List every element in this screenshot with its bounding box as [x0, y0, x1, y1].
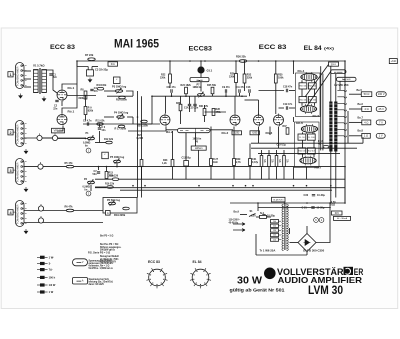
potentiometer P1 0,5M lin	[88, 137, 95, 140]
wire Ro.1b cathode net	[57, 126, 63, 131]
ground below Bu.2	[24, 149, 28, 154]
wire diagonal to marker box	[305, 65, 329, 98]
svg-text:Höhen: Höhen	[195, 146, 203, 150]
wire grid return line	[166, 129, 233, 131]
wire ground bus lower	[95, 187, 345, 189]
resistor R16 220k	[119, 96, 126, 99]
capacitor C31b 0,47u	[249, 159, 252, 166]
mains transformer Tr1 core	[284, 203, 286, 250]
tube Ro.2 triode a	[160, 115, 170, 125]
switch S1	[249, 214, 256, 217]
potentiometer P6 box frame	[103, 198, 137, 214]
wire R26 drop	[235, 61, 237, 74]
svg-text:Bei P3 = 5 Ω: Bei P3 = 5 Ω	[100, 236, 114, 238]
wire EL84 block frame	[296, 73, 321, 117]
capacitor C16 3,3n	[249, 89, 250, 92]
capacitor C11 47n	[239, 89, 240, 92]
mains transformer Tr1 primary	[282, 204, 284, 250]
supply label box right end of bus	[389, 59, 397, 64]
svg-text:Bu.9: Bu.9	[234, 211, 240, 214]
svg-text:6293: 6293	[234, 133, 240, 135]
wire vertical x293.5	[293, 61, 295, 74]
wire Bu.2 row	[24, 137, 86, 139]
terminal oval 7V	[376, 133, 385, 138]
svg-text:47n: 47n	[172, 86, 177, 89]
wire Ro.2a cathode	[165, 127, 167, 132]
svg-text:P6 5kΩ log: P6 5kΩ log	[107, 199, 120, 202]
ground below Bu.3	[24, 187, 28, 192]
svg-text:Ü2 WK 253: Ü2 WK 253	[334, 82, 349, 87]
box marker 6293	[232, 131, 242, 135]
terminal oval 100V	[376, 92, 386, 97]
capacitor C5 4,7n	[87, 122, 88, 125]
wire Ro.1a anode up	[62, 84, 77, 89]
note block mid 1	[100, 244, 122, 251]
wire Ro.1a anode row	[67, 95, 96, 97]
svg-text:Rö.7: Rö.7	[315, 166, 322, 170]
resistor R36 22k	[239, 60, 247, 63]
resistor R31 47k	[203, 109, 206, 116]
jack circle row4 a	[38, 206, 43, 211]
resistor R16b 226	[107, 186, 114, 189]
svg-text:C18 47n: C18 47n	[283, 86, 293, 89]
note block mid 2	[100, 256, 119, 263]
wire U2 pin fan	[337, 90, 346, 137]
resistor R28 470k	[212, 109, 215, 116]
svg-text:R21: R21	[138, 135, 143, 137]
svg-text:30 W: 30 W	[237, 276, 262, 287]
svg-text:300Ω/W gilt Ω: 300Ω/W gilt Ω	[100, 248, 115, 251]
potentiometer P2 0,5M lin	[88, 181, 95, 184]
svg-text:LVM 30: LVM 30	[308, 283, 343, 297]
section marker box 2	[114, 77, 121, 84]
wire center mesh	[151, 96, 153, 124]
resistor R12 326	[106, 141, 113, 144]
ground below Bu.4	[24, 229, 28, 234]
ground below U1	[42, 97, 46, 102]
wire anode drop x170	[169, 61, 171, 74]
svg-text:50 Ω: 50 Ω	[364, 92, 370, 96]
wire vertical x348 near fan	[347, 111, 349, 144]
svg-text:C30: C30	[304, 194, 309, 197]
rectifier bridge Gl.2	[298, 234, 316, 252]
potentiometer P3 1M log	[115, 90, 123, 93]
terminal oval 25V	[376, 107, 386, 112]
capacitor C19 47n	[286, 106, 287, 109]
tube Ro.5 EL84	[300, 106, 316, 113]
legend oval 1	[73, 259, 88, 266]
capacitor C18 47n	[286, 89, 287, 92]
svg-text:C 21: C 21	[302, 207, 308, 210]
box marker above U2	[329, 62, 339, 66]
resistor R13 226k	[105, 172, 108, 179]
svg-text:ECC 83: ECC 83	[148, 260, 160, 264]
capacitor C1 22n	[49, 74, 52, 75]
wire PSU top rails	[230, 202, 345, 204]
resistor R35 100k	[274, 74, 277, 83]
potentiometer P5 1M log	[114, 160, 121, 163]
svg-text:R7 22k: R7 22k	[85, 53, 94, 57]
wire Ro.3 cathodes	[258, 127, 260, 144]
resistor R24 182k	[185, 87, 188, 94]
legend text 1	[89, 260, 114, 270]
svg-text:641: 641	[111, 63, 116, 66]
jack circle b on row 2	[52, 135, 57, 140]
svg-text:Rö.3: Rö.3	[266, 131, 273, 135]
svg-text:P3 1MΩ log: P3 1MΩ log	[112, 85, 127, 89]
svg-text:100 h: 100 h	[49, 276, 56, 280]
svg-text:Gl.1|E75/15: Gl.1|E75/15	[273, 199, 284, 201]
svg-text:10n: 10n	[101, 129, 106, 132]
svg-text:TONABNEHMER: TONABNEHMER	[17, 124, 20, 144]
transformer U2 winding right	[334, 102, 337, 152]
svg-text:C19 47n: C19 47n	[283, 103, 293, 106]
svg-text:P4 1MΩ log: P4 1MΩ log	[114, 111, 129, 115]
wire Bu.1 to transformer	[24, 70, 31, 72]
svg-text:R36 22k: R36 22k	[236, 55, 246, 59]
svg-text:leistung (ca. 22mV/1k): leistung (ca. 22mV/1k)	[89, 280, 113, 283]
svg-text:220k: 220k	[229, 76, 235, 79]
tube Ro.7 net	[306, 167, 308, 180]
svg-text:dann: 63 kΩ/V: dann: 63 kΩ/V	[89, 284, 105, 286]
svg-text:220k: 220k	[247, 76, 253, 79]
potentiometer P7	[198, 94, 205, 97]
capacitor C9 47n	[225, 89, 226, 92]
box 615	[332, 211, 343, 215]
marker circled 2	[86, 191, 91, 196]
capacitor C15 22n	[193, 104, 196, 105]
resistor R29 2,7k	[233, 159, 236, 166]
svg-text:6265: 6265	[252, 133, 258, 135]
svg-text:R16 220k: R16 220k	[116, 99, 127, 102]
marker circled 6	[314, 218, 319, 223]
wire P1 net	[42, 137, 53, 139]
svg-text:Rö.1: Rö.1	[68, 110, 75, 114]
resistor R11 62k	[97, 123, 104, 126]
svg-text:R41 6,8: R41 6,8	[298, 151, 306, 153]
svg-text:100 V: 100 V	[378, 92, 385, 96]
svg-text:1: 1	[9, 73, 11, 77]
connector Bu.1 (DIN input 1)	[16, 63, 25, 89]
box marker 6265	[250, 131, 260, 135]
svg-text:EL 84: EL 84	[304, 45, 323, 52]
connector Bu.4 (DIN input 4)	[16, 201, 25, 227]
wire Bu.4 row b	[24, 222, 103, 224]
capacitor C6 10n	[98, 128, 101, 129]
svg-text:▬ ▬▬▬: ▬ ▬▬▬	[334, 71, 343, 73]
wire Bu.3 long row	[24, 166, 345, 168]
transformer U1 core	[39, 68, 40, 94]
svg-text:Bu.5: Bu.5	[357, 89, 363, 92]
balance box	[190, 78, 209, 82]
svg-text:A▬ 50Ω: A▬ 50Ω	[342, 78, 351, 81]
box Hoehen (treble)	[191, 146, 206, 150]
wire bus to C3	[77, 61, 88, 67]
svg-text:615: 615	[335, 212, 340, 215]
wire Hoehen down	[198, 150, 200, 166]
potentiometer P8 slider box	[178, 128, 211, 132]
marker box A	[106, 211, 111, 216]
svg-text:MAI 1965: MAI 1965	[114, 39, 160, 51]
wire feedback line 3	[258, 152, 340, 154]
capacitor C4 47n	[90, 89, 93, 90]
svg-text:2,7k: 2,7k	[236, 161, 241, 164]
svg-text:R46 100: R46 100	[309, 99, 317, 101]
svg-text:Bu.8: Bu.8	[358, 130, 364, 133]
svg-text:4Ω: 4Ω	[318, 143, 321, 146]
svg-text:100k: 100k	[278, 76, 284, 79]
svg-text:4 Ω: 4 Ω	[364, 107, 368, 111]
svg-text:▒201: ▒201	[331, 63, 337, 66]
wire EL84 block frame 2	[295, 122, 320, 168]
resistor R30 2,2k	[179, 104, 182, 111]
svg-text:50n: 50n	[93, 173, 98, 176]
terminal box 1 ohm	[362, 133, 371, 138]
svg-text:47n: 47n	[94, 90, 99, 93]
mains arrows	[233, 223, 245, 232]
svg-text:gültig ab Gerät Nr 501: gültig ab Gerät Nr 501	[230, 287, 286, 292]
svg-text:P.S. Serie PS = 5 Ω: P.S. Serie PS = 5 Ω	[88, 252, 110, 255]
svg-text:C16: C16	[246, 86, 251, 89]
box Ro.7 upper cluster	[298, 148, 306, 154]
tube Ro.7 EL84	[300, 157, 316, 164]
svg-text:▬▬ V: ▬▬ V	[76, 261, 83, 264]
svg-text:R16 22k: R16 22k	[105, 183, 115, 186]
svg-text:220k: 220k	[160, 76, 166, 79]
svg-text:Bu.7: Bu.7	[358, 116, 364, 119]
wire P8 pointer	[195, 133, 197, 146]
tube Ro.3 triode b	[274, 115, 284, 125]
svg-text:R12 32k: R12 32k	[104, 138, 114, 141]
svg-text:C9 47n: C9 47n	[222, 86, 230, 89]
svg-text:Si.1: Si.1	[260, 212, 265, 215]
wire feedback line 2	[251, 147, 357, 149]
capacitor C3 32+32u electrolytic	[87, 70, 94, 76]
Tr1 tap boxes	[271, 220, 279, 242]
svg-text:R.. 100: R.. 100	[308, 137, 315, 139]
wire U2 to terminals	[349, 93, 361, 95]
svg-text:4 Ω: 4 Ω	[364, 120, 368, 124]
resistor R27 1k	[210, 159, 213, 166]
resistor R43 16	[299, 83, 307, 89]
svg-text:40-60 Hz: 40-60 Hz	[229, 221, 240, 224]
wire pair left of U2	[320, 66, 322, 150]
svg-text:Rö.2: Rö.2	[222, 131, 229, 135]
tube Ro.1 triode b	[57, 115, 67, 125]
capacitor C7 50n	[97, 172, 100, 173]
capacitor C2 22n	[55, 100, 58, 101]
jack circle on row 3	[38, 164, 43, 169]
resistor R45 100	[308, 83, 316, 89]
resistor R44 16	[299, 97, 307, 103]
legend text 2	[89, 279, 113, 286]
svg-text:Rö.2: Rö.2	[166, 130, 173, 134]
svg-text:R44 16: R44 16	[300, 99, 307, 101]
capacitor C8 47n	[171, 89, 172, 92]
svg-text:25 V: 25 V	[379, 107, 385, 111]
svg-text:R11 62k: R11 62k	[96, 120, 106, 123]
tube Ro.1 triode a	[57, 90, 67, 100]
mains transformer Tr1 secondary	[287, 204, 289, 250]
svg-text:RS45 63-B25/Y: RS45 63-B25/Y	[100, 260, 117, 263]
marker box 5	[102, 152, 109, 159]
svg-text:1,2k: 1,2k	[162, 162, 167, 165]
resistor R21 0,22M	[140, 160, 143, 167]
svg-text:TONABNEHMER: TONABNEHMER	[17, 204, 20, 224]
svg-text:R6 47k: R6 47k	[65, 206, 74, 209]
svg-text:64 - 96mA: 64 - 96mA	[337, 217, 348, 220]
wire transformer bottom drops	[330, 152, 332, 204]
svg-text:(4x): (4x)	[324, 46, 335, 50]
resistor R37 10k	[286, 128, 289, 135]
svg-text:7Ω·: 7Ω·	[49, 268, 53, 272]
svg-text:Rö.5: Rö.5	[313, 114, 320, 118]
fuse Si.1	[260, 215, 267, 218]
resistor R26 220k	[235, 74, 238, 83]
resistor R10 100k	[97, 87, 104, 90]
resistor R6 476	[66, 209, 74, 212]
svg-text:R19 226k: R19 226k	[114, 213, 126, 217]
resistor R22 220k	[169, 74, 172, 83]
wire row3 net	[98, 167, 100, 170]
svg-text:R.. 16: R.. 16	[299, 137, 305, 139]
svg-text:182k: 182k	[186, 84, 192, 87]
svg-text:1 W·: 1 W·	[49, 255, 55, 259]
transformer U1 primary winding	[34, 70, 39, 93]
svg-text:22n: 22n	[53, 76, 58, 79]
svg-text:C11 47n: C11 47n	[236, 86, 246, 89]
legend oval 2	[73, 278, 88, 285]
wire feedback line 1	[251, 142, 363, 144]
svg-text:Rö.1: Rö.1	[68, 86, 75, 90]
potentiometer P6 5k log	[109, 202, 116, 205]
box VR2 1M	[52, 128, 65, 133]
marker circled 1	[86, 148, 91, 153]
title glitch blob	[344, 267, 354, 275]
title logo dot	[264, 268, 276, 280]
jack circle row4 b	[38, 218, 43, 223]
svg-text:P5 1MΩ log: P5 1MΩ log	[110, 155, 125, 159]
wire Ro.1b anode	[62, 84, 77, 113]
svg-text:+310: +310	[391, 60, 397, 63]
wire Bu.4 row a	[24, 210, 103, 212]
svg-text:3: 3	[9, 169, 11, 173]
svg-text:10-30μ: 10-30μ	[317, 194, 325, 197]
resistor ladder before EL84	[260, 156, 263, 167]
socket EL 84	[192, 269, 209, 286]
svg-text:C14,C15 22n: C14,C15 22n	[184, 107, 199, 110]
svg-text:▬▃▬: ▬▃▬	[196, 79, 203, 81]
tube Ro.4 EL84	[301, 74, 317, 81]
svg-text:0,22M: 0,22M	[137, 138, 143, 140]
svg-text:EL 84: EL 84	[193, 260, 202, 264]
svg-text:820k: 820k	[79, 97, 85, 100]
svg-text:R 17 220k: R 17 220k	[115, 128, 127, 131]
rectifier Gl.1 box	[272, 197, 286, 202]
tube Ro.6 EL84	[301, 126, 317, 133]
resistor R32 220k	[243, 74, 246, 83]
terminal oval 15V	[376, 120, 386, 125]
svg-text:Rö.4: Rö.4	[298, 69, 305, 73]
svg-text:22n: 22n	[53, 107, 58, 110]
resistor R17 220k	[118, 125, 125, 128]
terminal box 5 ohm	[362, 120, 371, 125]
svg-text:7 V: 7 V	[379, 120, 383, 124]
resistor R47 box	[298, 134, 306, 140]
svg-text:Tr 1 W6 25A: Tr 1 W6 25A	[260, 249, 276, 253]
svg-text:3·: 3·	[49, 262, 51, 266]
svg-text:R 54: R 54	[318, 140, 324, 143]
rectifier Gl.1 dot	[197, 66, 204, 73]
svg-text:1 W: 1 W	[49, 290, 54, 294]
potentiometer P4 1M log	[117, 116, 125, 119]
wire stage2 coupling row	[152, 95, 247, 97]
svg-text:R5 47k: R5 47k	[65, 162, 74, 165]
svg-text:100k: 100k	[101, 84, 107, 87]
svg-text:▬▬ A: ▬▬ A	[77, 280, 84, 283]
wire ground bus upper	[95, 178, 345, 180]
wire U1 secondary to grid	[46, 70, 57, 93]
svg-text:1 Ω: 1 Ω	[364, 134, 368, 138]
svg-text:R37: R37	[283, 126, 288, 128]
svg-text:820k: 820k	[88, 110, 94, 113]
jack circle a on row 2	[37, 135, 42, 140]
wire +300V supply bus	[77, 60, 345, 62]
svg-text:1kΩ: 1kΩ	[213, 161, 218, 164]
resistor R7 22k	[88, 58, 96, 61]
svg-text:51Ω: 51Ω	[331, 204, 336, 207]
wire x345 drop	[344, 61, 346, 203]
svg-text:Rö.6: Rö.6	[296, 121, 303, 125]
socket ECC 83	[149, 269, 166, 286]
ground below C3	[88, 78, 92, 83]
svg-text:Gl.1: Gl.1	[207, 68, 213, 72]
connector Bu.3 (DIN input 3)	[16, 159, 25, 185]
box tap label 50ohm	[337, 77, 357, 81]
svg-text:C5 4,7n: C5 4,7n	[83, 120, 92, 123]
capacitor C14 22n	[188, 104, 191, 105]
svg-text:TONABNEHMER: TONABNEHMER	[17, 66, 20, 86]
svg-text:5mV/Pos. 1,5MΩ am Ω: 5mV/Pos. 1,5MΩ am Ω	[89, 267, 114, 270]
Tr1 tap wires	[279, 221, 282, 239]
wire U2 top connections	[330, 66, 332, 101]
svg-text:0,47μ: 0,47μ	[252, 161, 259, 164]
svg-text:voltmeter, Rᴙ = 1 Ω: voltmeter, Rᴙ = 1 Ω	[89, 265, 110, 268]
connector Bu.2 (DIN input 2)	[16, 121, 25, 147]
marker circled 1b	[319, 218, 324, 223]
svg-text:A: A	[107, 211, 109, 215]
wire junction dots	[76, 60, 78, 62]
capacitor C13 50u	[184, 161, 189, 167]
transformer U2 winding left	[329, 102, 332, 152]
svg-text:1/2 W: 1/2 W	[49, 283, 56, 287]
resistor R5 476	[66, 165, 74, 168]
svg-text:ECC83: ECC83	[189, 45, 213, 52]
resistor R23 1,2k	[171, 160, 174, 167]
wire twin verticals	[137, 91, 139, 198]
svg-text:R42 6,8: R42 6,8	[308, 151, 316, 153]
svg-text:ECC 83: ECC 83	[259, 44, 287, 51]
legend resistor symbols	[37, 255, 56, 294]
terminal box 50 ohm	[361, 92, 372, 97]
wire bridge connections	[290, 242, 299, 244]
resistor R8 820k	[84, 91, 87, 99]
svg-text:2: 2	[9, 131, 11, 135]
ground below Bu.1	[19, 94, 23, 99]
wire grid row to Ro.2	[83, 123, 160, 125]
svg-text:R43 16: R43 16	[300, 86, 307, 88]
transformer U1 secondary winding	[42, 70, 47, 93]
